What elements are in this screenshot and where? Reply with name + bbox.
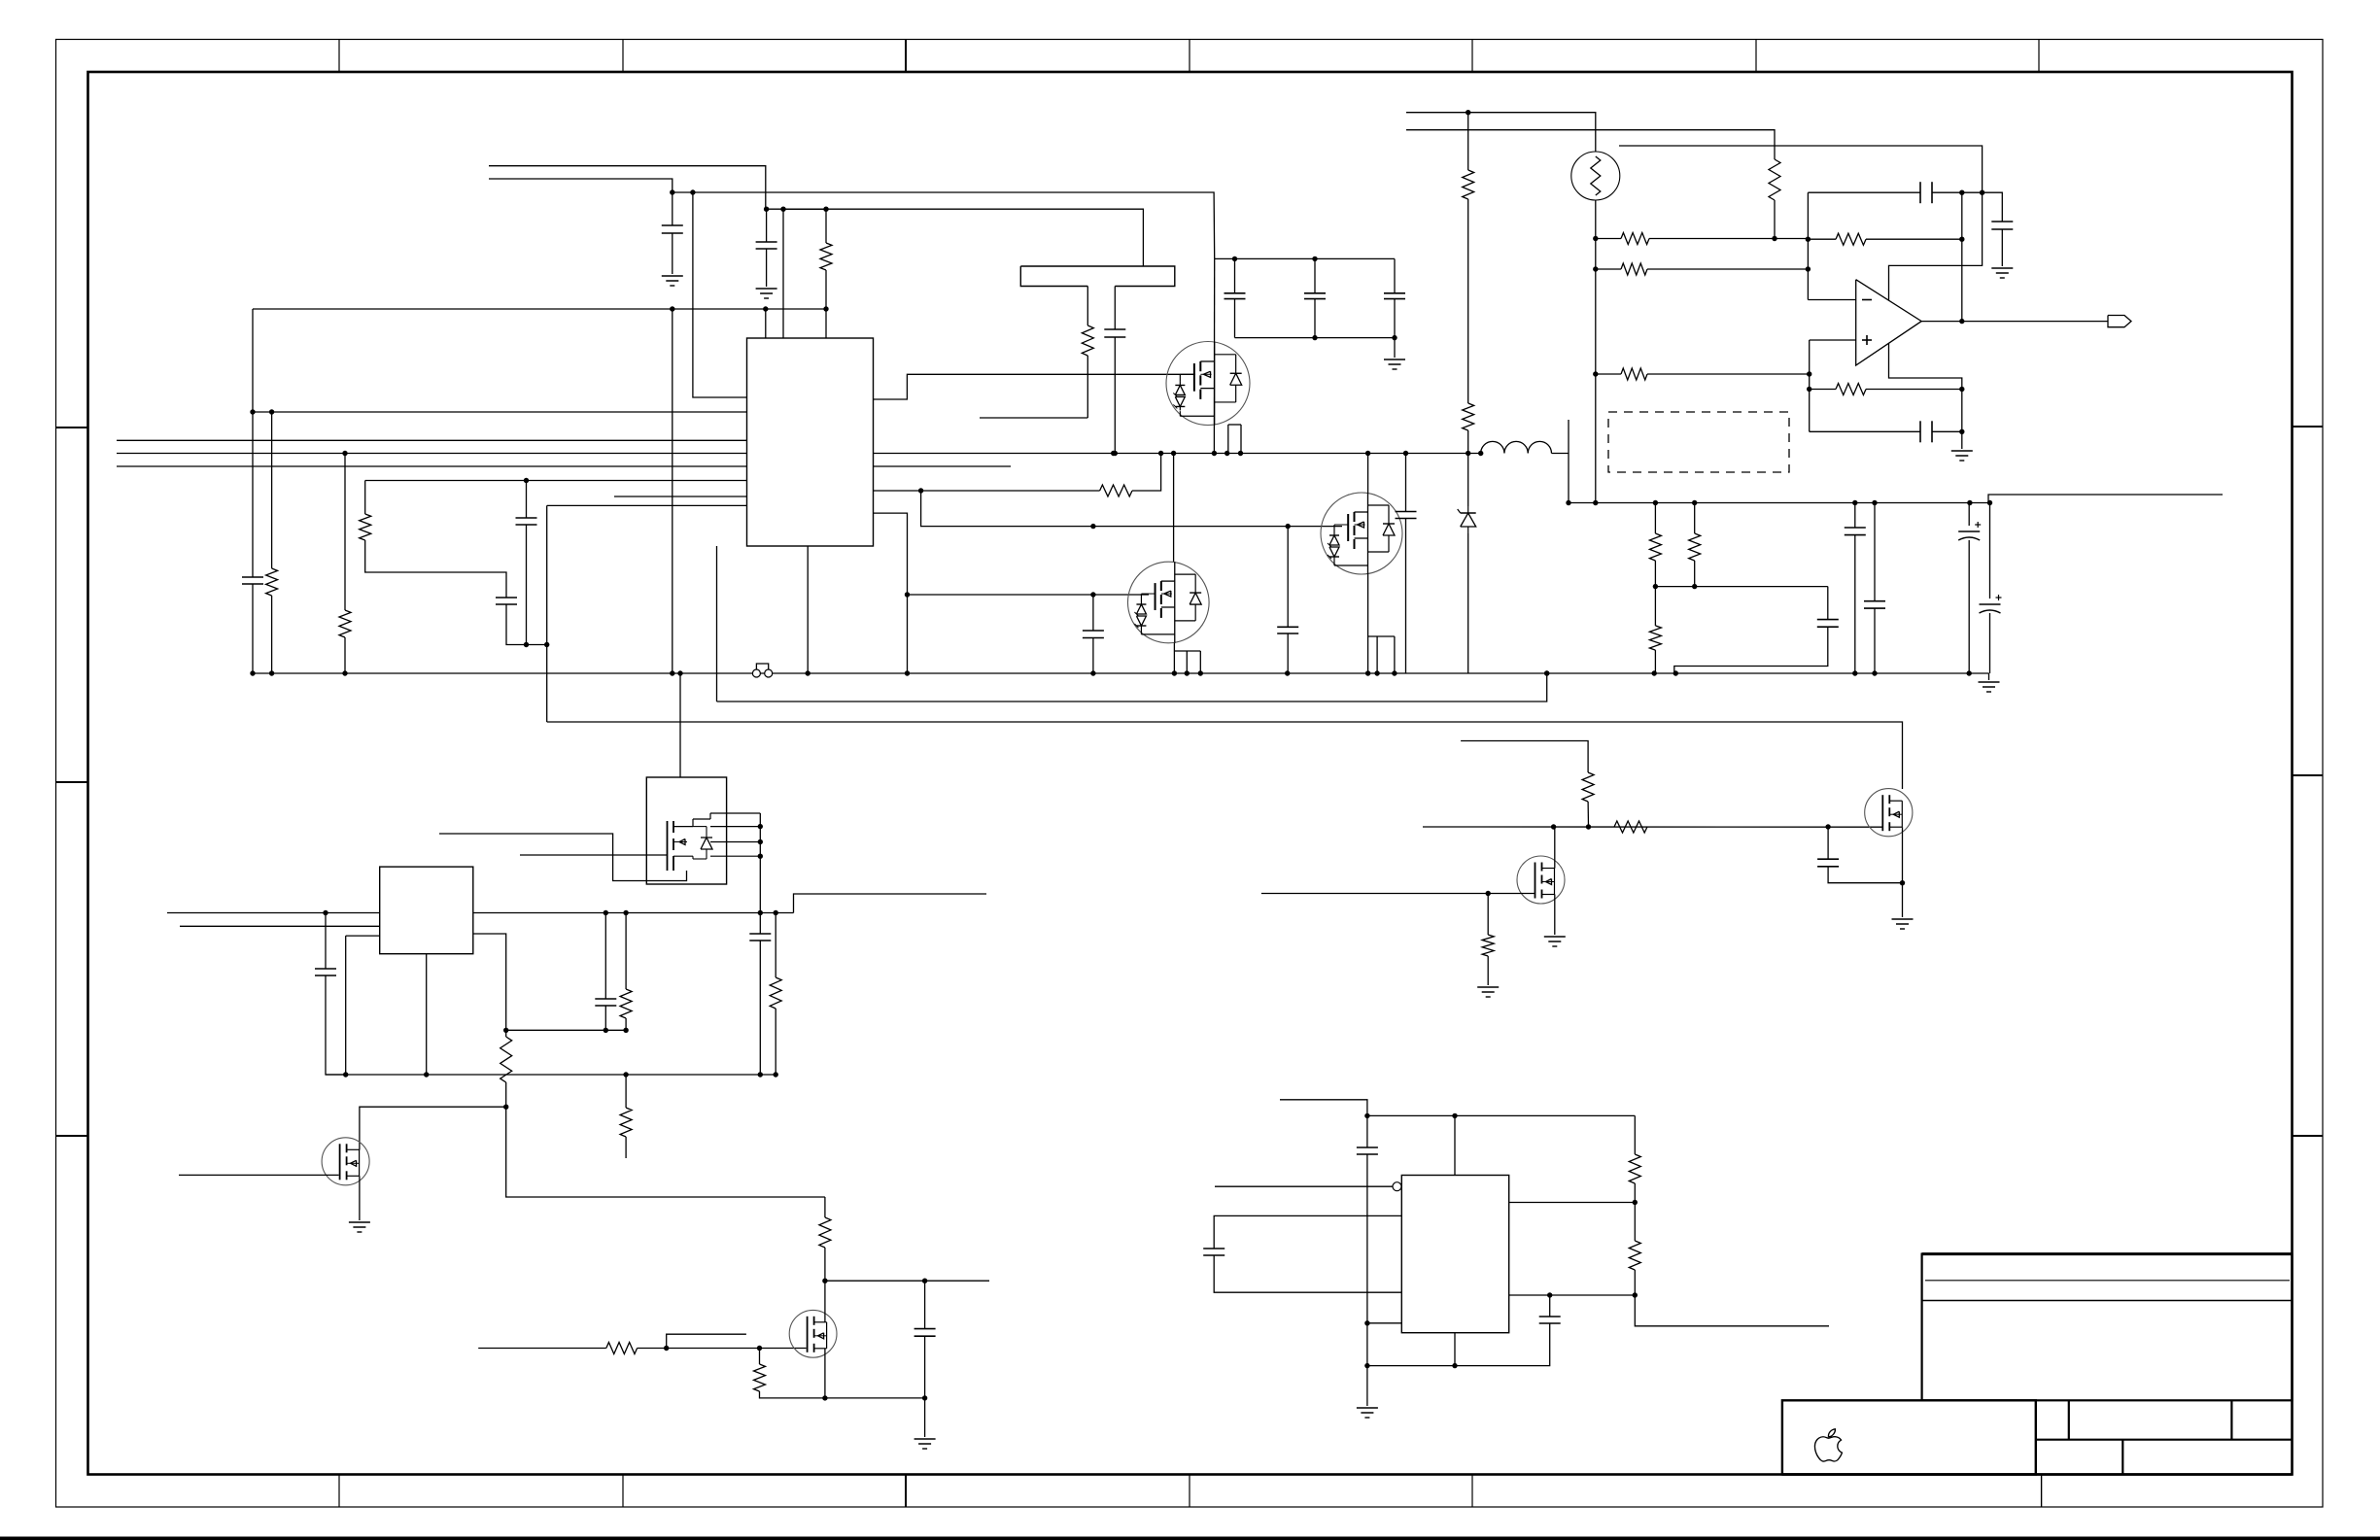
node x1407 gnd	[1364, 1363, 1369, 1368]
wire rail y318	[253, 308, 826, 310]
capacitor C5	[516, 517, 537, 519]
node SW dot A	[1111, 451, 1116, 456]
border zone tick bottom 3	[905, 1475, 907, 1508]
wire module bus	[759, 813, 761, 913]
wire R1 to U1 top	[825, 309, 827, 338]
wire R8 top lead	[1467, 113, 1469, 170]
wire Q7 source	[824, 1349, 826, 1398]
wire T stem right	[1114, 287, 1116, 330]
node Q3 drain SW	[1365, 451, 1370, 456]
node VIN rail dot B	[690, 189, 695, 194]
wire U1 pin y520	[547, 504, 747, 506]
wire C7 bottom	[1287, 633, 1289, 673]
wire C1 to ground	[672, 233, 673, 274]
capacitor C4	[496, 597, 517, 599]
title block cell divider v2	[2230, 1400, 2232, 1439]
node R12 joint	[1772, 236, 1776, 241]
wire cap bank bottom rail	[1235, 337, 1396, 339]
wire R26 corner	[760, 1391, 825, 1398]
wire R28 out stub	[1635, 1295, 1829, 1326]
wire C19 gnd lead	[2001, 229, 2003, 266]
wire C25 top lead	[924, 1281, 926, 1328]
wire U1 sense pin	[874, 490, 1100, 492]
wire R25 to gate	[638, 1348, 807, 1350]
wire U1 VCC pin top	[782, 209, 784, 338]
wire U3 top rail	[1367, 1114, 1635, 1116]
wire gate3 cap chain	[1287, 527, 1289, 628]
resistor R29	[770, 977, 781, 1009]
wire x788 U1 top pin	[765, 309, 767, 338]
wire bank cap 1 bottom lead	[1234, 299, 1236, 338]
node adj gnd	[343, 1072, 348, 1077]
wire U3 inv input	[1215, 1185, 1393, 1187]
node VIN rail dot A	[670, 189, 674, 194]
resistor R20	[1482, 935, 1494, 956]
node Q5 gate	[1486, 891, 1491, 896]
transistor Q3	[1321, 493, 1402, 574]
node mod p1	[758, 824, 763, 829]
wire LDO in stub	[167, 912, 380, 914]
wire bank cap 3 bottom lead	[1394, 299, 1396, 338]
title block upper box	[1922, 1254, 2293, 1401]
node A in	[1806, 266, 1811, 271]
capacitor C19	[1991, 221, 2013, 222]
capacitor C25	[914, 1328, 936, 1330]
wire rc branch	[1983, 192, 2003, 222]
node x562 tap	[544, 642, 549, 647]
resistor R3	[339, 610, 351, 637]
node Q2 s1	[1172, 670, 1177, 675]
capacitor C6	[1083, 630, 1104, 632]
node g1106 d	[623, 1072, 628, 1077]
wire R7 bottom lead	[1467, 430, 1469, 454]
node out 1909	[1852, 500, 1857, 505]
wire supply branch	[1889, 192, 1983, 300]
node bank b1	[1312, 335, 1317, 340]
node C25 top	[922, 1279, 927, 1283]
wire R26 top lead	[759, 1349, 761, 1365]
capacitor C13	[1817, 619, 1839, 621]
resistor R25	[606, 1343, 638, 1354]
capacitor C15	[1864, 600, 1885, 602]
wire R3 top lead	[344, 454, 346, 611]
ground C2	[756, 288, 777, 290]
wire module top pin	[679, 673, 681, 777]
wire Q5 drain	[1554, 827, 1556, 869]
capacitor C12	[1396, 511, 1417, 513]
wire R2 bottom lead	[271, 596, 273, 673]
IC U3	[1401, 1176, 1508, 1333]
node therm tap3	[1593, 371, 1598, 376]
wire R19 bottom lead	[1587, 802, 1589, 827]
node polcap A gnd	[1967, 670, 1972, 675]
node rail424 dot	[269, 409, 274, 414]
node fb3	[623, 1028, 628, 1033]
wire therm top stub	[1406, 113, 1596, 152]
node g 1592	[1544, 670, 1549, 675]
wire bank cap 1 top lead	[1234, 258, 1236, 292]
wire U1 gate3 staircase	[921, 491, 1342, 527]
border zone tick top 2	[622, 40, 624, 73]
resistor R2	[266, 568, 278, 596]
node Q7 src	[822, 1395, 827, 1400]
capacitor C23	[595, 998, 616, 1000]
wire U3 loop pin top	[1214, 1215, 1401, 1249]
ground Q5	[1544, 936, 1566, 938]
wire feedback y743	[547, 722, 1903, 789]
ground C20	[1951, 450, 1973, 452]
wire rail y424	[253, 411, 747, 413]
wire x260 to cap	[252, 412, 254, 577]
wire gnd rail end lead	[1988, 673, 1990, 680]
node y851 b	[1586, 824, 1591, 829]
ground Q4b	[349, 1221, 370, 1223]
node bank t1	[1232, 257, 1237, 261]
wire R12 feed stub	[1406, 130, 1775, 159]
capacitor C7	[1277, 626, 1298, 628]
resistor R26	[754, 1364, 766, 1391]
node Q7 drain	[822, 1279, 827, 1283]
wire joint to x562	[527, 644, 547, 646]
wire y430 stub	[980, 417, 1087, 419]
node U1 pinB gnd	[806, 670, 811, 675]
wire C20 gnd lead	[1961, 431, 1963, 449]
title block rule 1	[1925, 1280, 2290, 1282]
wire U3 loop bottom	[1214, 1255, 1401, 1292]
node y851 a	[1551, 824, 1556, 829]
wire C25 gnd lead	[924, 1398, 926, 1437]
wire U1 gate2 staircase	[874, 513, 908, 673]
wire C8 bottom	[1114, 337, 1116, 454]
border zone tick right 1	[2293, 426, 2324, 428]
wire C3 down	[252, 584, 254, 673]
wire C6 bottom	[1092, 638, 1094, 674]
resistor R19	[1582, 772, 1594, 802]
node therm tap2	[1593, 266, 1598, 271]
resistor R17 feedback	[1836, 384, 1866, 395]
wire out cap B top	[1874, 503, 1876, 601]
node fb right	[1959, 237, 1964, 242]
capacitor C2	[756, 241, 777, 243]
wire net y494	[365, 480, 747, 482]
node gate2 corner	[905, 592, 910, 597]
node chain joint	[524, 642, 529, 647]
wire Q7 drain lead	[824, 1281, 826, 1321]
resistor R15	[1621, 368, 1647, 380]
wire R27 bottom lead	[1634, 1183, 1636, 1203]
resistor R18	[1614, 821, 1647, 833]
wire U2 en pin	[473, 934, 506, 1037]
wire R8 to R7	[1467, 199, 1469, 403]
node g 1325	[1285, 670, 1290, 675]
capacitor C14	[1845, 527, 1866, 529]
wire rail2 ext to R1	[783, 208, 826, 210]
wire y1232 link	[824, 1197, 826, 1217]
wire Q2 gate	[908, 594, 1150, 596]
node R1 top	[823, 207, 828, 212]
wire Q4b drain chain	[360, 1107, 506, 1149]
wire U3 bottom pin	[1454, 1333, 1456, 1366]
node g 933	[905, 670, 910, 675]
wire C24 top lead	[759, 913, 761, 935]
node R1 bottom	[823, 306, 828, 311]
wire R21 top lead	[625, 913, 627, 990]
wire C22 corner	[326, 975, 346, 1075]
node fb1	[503, 1028, 508, 1033]
wire R20 gnd lead	[1487, 956, 1489, 985]
resistor R16 feedback	[1836, 233, 1866, 245]
node ldo d	[774, 910, 778, 915]
capacitor C8	[1104, 328, 1125, 330]
wire C13 loop	[1674, 627, 1828, 673]
wire gate2 cap chain	[1092, 595, 1094, 631]
capacitor C27	[1203, 1248, 1224, 1249]
title block cells row border	[2036, 1439, 2293, 1441]
wire src link	[825, 1397, 925, 1399]
wire parallel y722	[717, 673, 1547, 702]
wire x692 long vertical	[672, 309, 673, 673]
wire Q1 drain	[1213, 258, 1215, 425]
IC U1 controller	[747, 338, 874, 546]
node Q2 d2	[1171, 451, 1176, 456]
border zone tick right 3	[2293, 1135, 2324, 1137]
wire U1 pin y511 stub	[614, 496, 747, 497]
wire bus stub 3	[117, 465, 747, 467]
capacitor C22	[315, 968, 336, 970]
wire R23 stub	[625, 1137, 627, 1158]
node y494 tap	[524, 478, 529, 483]
node C28 top	[1547, 1292, 1552, 1297]
wire LDO in stub2	[180, 925, 380, 927]
node C6 gnd	[1090, 670, 1095, 675]
wire output rail y517	[1569, 495, 2223, 503]
node g1106 e	[774, 1072, 778, 1077]
wire out cap B bottom	[1874, 608, 1876, 673]
wire R11 bottom lead	[1694, 561, 1696, 587]
wire Q2 drain	[1173, 454, 1175, 563]
capacitor C3	[242, 576, 263, 578]
wire therm bottom	[1595, 200, 1597, 503]
wire R14 to nodeA	[1647, 268, 1808, 270]
node div mid2	[1692, 584, 1697, 589]
wire R10 bottom lead	[1654, 650, 1656, 673]
node Q3 s2	[1374, 670, 1379, 675]
node x260 mid	[250, 409, 255, 414]
wire bottom cap line	[1810, 430, 1920, 432]
wire fb2 res right	[1866, 389, 1962, 391]
wire bank cap 2 bottom lead	[1314, 299, 1316, 338]
wire R28 bottom lead	[1634, 1270, 1636, 1295]
Apple logo	[1814, 1429, 1842, 1461]
node Q2 s2	[1185, 670, 1190, 675]
node ldo b	[623, 910, 628, 915]
wire module gate B	[520, 854, 668, 856]
node gate2 tap	[1090, 592, 1095, 597]
capacitor C28	[1539, 1316, 1561, 1318]
border zone tick top 5	[1471, 40, 1473, 73]
wire L1 to out node	[1552, 453, 1569, 455]
node fb2	[604, 1028, 608, 1033]
resistor R27	[1629, 1154, 1640, 1183]
Q2 source loop	[1173, 643, 1175, 673]
title block rule 2	[1922, 1300, 2293, 1302]
node Q6 src	[1900, 880, 1905, 885]
node out 2027	[1967, 500, 1972, 505]
node B vertical	[1809, 340, 1811, 431]
border zone tick bottom 2	[622, 1475, 624, 1508]
ground R20	[1477, 986, 1499, 988]
ground C19	[1991, 267, 2013, 269]
ground Q6	[1892, 918, 1914, 920]
node Q3 s3	[1392, 670, 1397, 675]
resistor R4	[360, 514, 371, 540]
node module top	[677, 670, 682, 675]
border zone tick top 7	[2038, 40, 2040, 73]
wire R23 top lead	[625, 1075, 627, 1108]
transistor Q5	[1517, 856, 1565, 904]
thermistor RT1	[1571, 152, 1620, 200]
wire C5 bottom lead	[526, 525, 528, 645]
wire U2 adj pin	[346, 935, 380, 937]
node supply top	[1980, 190, 1984, 195]
border zone tick bottom 5	[1471, 1475, 1473, 1508]
wire C12 top lead	[1405, 454, 1407, 512]
wire T stem left	[1087, 287, 1088, 326]
resistor R7	[1463, 403, 1474, 430]
wire C23 bottom lead	[604, 1006, 606, 1030]
wire R13 to nodeA	[1649, 238, 1808, 240]
node Q1 s3	[1238, 451, 1243, 456]
capacitor C10	[1304, 292, 1326, 294]
node fb2 cap	[1959, 429, 1964, 434]
node U3 bot pin	[1452, 1363, 1457, 1368]
node C8 SW	[1113, 451, 1118, 456]
node Q1 s2	[1224, 451, 1229, 456]
border zone tick left 2	[56, 781, 88, 783]
node U3 rp2	[1633, 1292, 1638, 1297]
transistor Q2	[1128, 562, 1210, 643]
node gate3 tapB	[1286, 524, 1291, 529]
capacitor C16 polarized	[1958, 530, 1980, 532]
resistor R10	[1649, 626, 1661, 650]
resistor R24	[819, 1217, 831, 1248]
wire R11 top lead	[1694, 503, 1696, 534]
ground cap bank	[1384, 359, 1405, 360]
node mod p2	[758, 839, 763, 844]
node Q2 s3	[1198, 670, 1203, 675]
border zone tick bottom 4	[1189, 1475, 1190, 1508]
wire jog from LDO rail	[794, 894, 987, 913]
transistor Q1	[1166, 342, 1250, 426]
wire ground rail y693	[253, 672, 1989, 674]
wire LDO out rail	[473, 912, 794, 914]
node ldo c	[758, 910, 763, 915]
border zone tick right 2	[2293, 774, 2324, 776]
wire VIN stub upper	[489, 166, 766, 210]
dashed outline box	[1608, 412, 1789, 472]
wire R9 top lead	[1654, 503, 1656, 534]
wire div mid link	[1655, 586, 1827, 588]
wire C2 to ground	[766, 249, 768, 287]
node gate tap b	[757, 1346, 762, 1351]
node g 692	[670, 670, 674, 675]
node out 1744	[1692, 500, 1697, 505]
wire U1 stub y480	[874, 465, 1012, 467]
capacitor C1	[662, 224, 683, 226]
wire U3 pin y1362	[1367, 1322, 1401, 1324]
wire C26 top lead	[1366, 1115, 1368, 1147]
node U2 gnd	[424, 1072, 429, 1077]
wire U3 top pin lead	[1454, 1115, 1456, 1175]
title block top edge thick	[1922, 1252, 2293, 1255]
wire minus cap line	[1808, 191, 1920, 193]
node D1 SW	[1466, 451, 1470, 456]
op-amp minus sign	[1862, 299, 1872, 301]
node C24 gnd	[758, 1072, 763, 1077]
wire R22 bottom	[505, 1082, 507, 1107]
wire R1 bottom lead	[825, 270, 827, 309]
border zone tick top 1	[338, 40, 340, 73]
node U3 top pin	[1452, 1113, 1457, 1118]
ground rail end	[1979, 681, 2000, 683]
wire tap1 to R13	[1596, 238, 1621, 240]
border zone tick top 3	[905, 40, 907, 73]
wire C13 top lead	[1827, 587, 1829, 620]
wire pol cap B top	[1989, 503, 1991, 599]
connector lug output	[2108, 316, 2131, 327]
transistor Q7	[789, 1310, 837, 1357]
wire U1 SW pin	[874, 453, 1481, 455]
power bus T flag	[1020, 266, 1175, 287]
wire cap C1 lead	[672, 192, 673, 225]
wire x562 vertical	[546, 505, 548, 722]
node rail2 dot A	[764, 207, 769, 212]
wire R29 bottom lead	[775, 1009, 776, 1075]
wire R22 corner	[506, 1107, 825, 1197]
wire R9 to R10	[1654, 561, 1656, 626]
wire C26 down	[1366, 1154, 1368, 1366]
resistor R1	[820, 243, 832, 270]
title block cell divider v3	[2121, 1440, 2123, 1475]
wire pol cap A top	[1968, 503, 1970, 527]
wire bottom cap line b	[1932, 430, 1962, 432]
node out dot	[1959, 319, 1964, 324]
transistor Q6	[1865, 789, 1913, 837]
wire C21 to source	[1828, 867, 1902, 883]
wire y1318 stub	[825, 1280, 989, 1282]
border zone tick top 6	[1755, 40, 1757, 73]
wire sense branch right	[1132, 454, 1161, 492]
wire R4 chain	[365, 540, 506, 598]
node out 1929	[1872, 500, 1877, 505]
node B fb	[1807, 387, 1811, 392]
wire Q6 source down	[1902, 827, 1904, 883]
node LDO in	[323, 910, 328, 915]
wire tap3 to R15	[1596, 373, 1621, 375]
node fb top	[1959, 190, 1964, 195]
module Q4 internal mosfet	[667, 821, 669, 871]
node outcap A gnd	[1852, 670, 1857, 675]
wire stub y762	[1461, 741, 1588, 773]
node rail318 dot	[763, 306, 768, 311]
wire fb link y1060	[506, 1029, 626, 1031]
wire U3 bottom rail	[1367, 1323, 1550, 1366]
node polcap B	[1987, 500, 1992, 505]
resistor R11	[1689, 533, 1701, 561]
node R3 rail693	[342, 670, 347, 675]
wire R2 top lead	[271, 412, 273, 568]
wire out node vertical	[1568, 420, 1569, 503]
